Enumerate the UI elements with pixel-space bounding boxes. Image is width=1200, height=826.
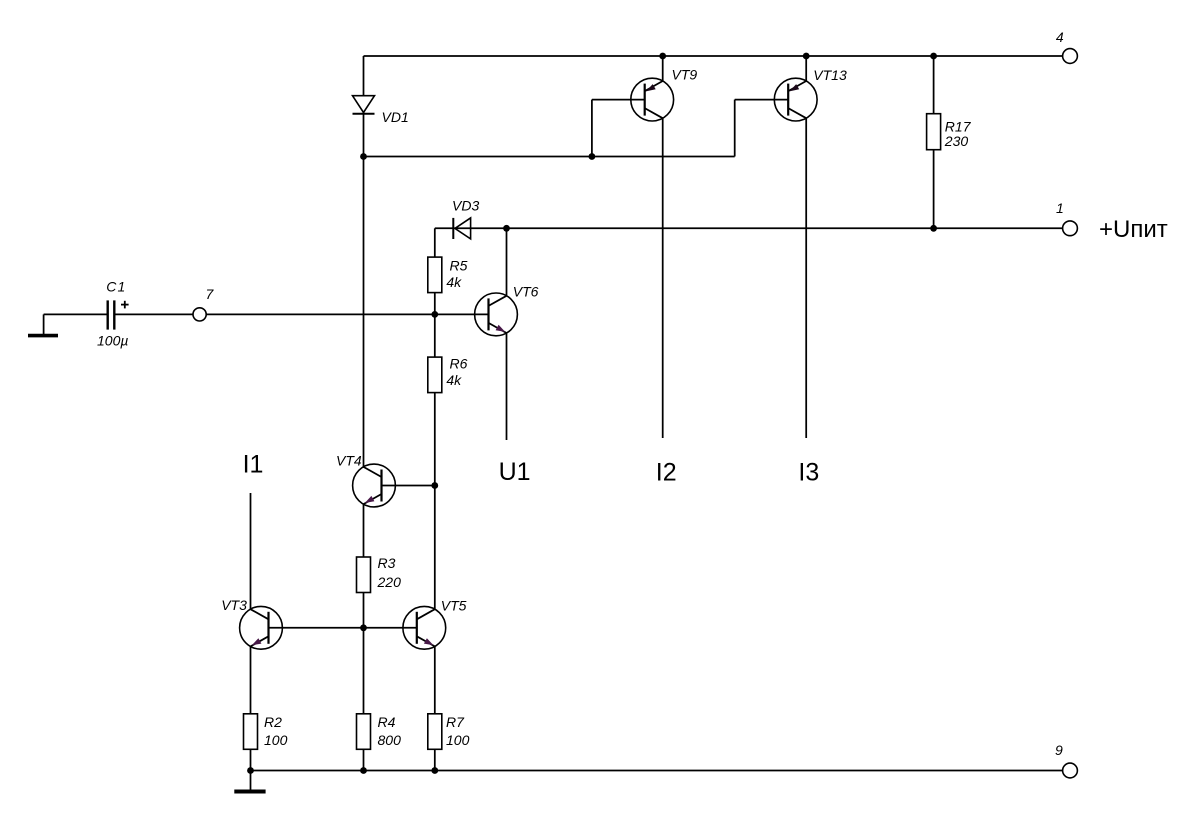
svg-text:VT13: VT13	[813, 67, 847, 83]
transistor VT6 (NPN)	[475, 293, 518, 336]
wire VD1 anode stub	[363, 56, 365, 96]
svg-text:4k: 4k	[446, 372, 462, 388]
terminal 9	[1063, 763, 1078, 778]
label R4	[378, 714, 402, 748]
node junction VD1-cathode rail	[360, 153, 367, 160]
transistor VT9 (PNP)	[631, 78, 674, 121]
wire VT9 base	[592, 99, 645, 101]
label I2	[656, 459, 677, 487]
label U1	[499, 458, 531, 486]
svg-text:I1: I1	[243, 450, 264, 478]
transistor VT3 (NPN mirrored)	[240, 606, 283, 649]
wire net 7	[206, 313, 489, 315]
wire R3 to base rail and R4	[363, 593, 365, 714]
label R5	[446, 258, 467, 291]
wire R2 to rail	[250, 749, 252, 770]
wire VT9 emitter to net4	[662, 56, 664, 82]
svg-text:100µ: 100µ	[97, 333, 128, 349]
label +Upit	[1099, 216, 1168, 243]
label VD1	[382, 109, 409, 125]
label R7	[446, 714, 470, 748]
svg-text:R5: R5	[450, 258, 468, 274]
wire VT13 emitter to net4	[805, 56, 807, 82]
label R3	[377, 555, 402, 590]
label terminal 4	[1056, 29, 1064, 45]
svg-text:VT3: VT3	[221, 597, 247, 613]
diode VD1	[353, 96, 375, 114]
node junction R17 on net 1	[930, 225, 937, 232]
wire ground to C1	[44, 313, 107, 315]
label VT5	[441, 597, 467, 613]
label VT3	[221, 597, 247, 613]
svg-text:C1: C1	[106, 278, 126, 294]
node junction R2 rail	[247, 767, 254, 774]
label VT6	[513, 283, 539, 299]
label I3	[798, 459, 819, 487]
svg-text:100: 100	[264, 732, 288, 748]
wire R17 bottom	[933, 150, 935, 229]
svg-text:VT4: VT4	[336, 453, 362, 469]
svg-text:4: 4	[1056, 29, 1064, 45]
svg-text:R17: R17	[945, 119, 972, 135]
label VT9	[672, 67, 698, 83]
svg-text:R6: R6	[450, 356, 468, 372]
svg-text:220: 220	[377, 574, 402, 590]
diode VD3	[453, 218, 470, 239]
wire VT13 base	[735, 99, 789, 101]
svg-text:100: 100	[446, 732, 470, 748]
wire VT13 collector to I3	[805, 118, 807, 438]
wire VD1 cathode / VT4 collector column	[363, 113, 365, 468]
node junction net7-R5R6	[431, 311, 438, 318]
label VD3	[452, 198, 479, 214]
node junction VT9 base riser	[589, 153, 596, 160]
label R17	[944, 119, 972, 150]
label C1 plus	[121, 301, 129, 309]
resistor R7	[428, 714, 442, 750]
wire VT9 base riser	[591, 100, 593, 157]
svg-text:I3: I3	[798, 459, 819, 487]
svg-text:+Uпит: +Uпит	[1099, 216, 1168, 243]
wire VT6 collector	[506, 228, 508, 296]
node junction R7 rail	[431, 767, 438, 774]
resistor R17	[927, 114, 941, 150]
svg-text:R2: R2	[264, 714, 282, 730]
wire net 9 bottom rail	[251, 770, 1063, 772]
ground symbol left	[28, 314, 58, 335]
svg-text:9: 9	[1055, 742, 1063, 758]
resistor R5	[428, 257, 442, 293]
label VT4	[336, 453, 362, 469]
label I1	[243, 450, 264, 478]
wire R6 to VT4 base node	[434, 393, 436, 486]
wire net 4 top rail	[364, 55, 1063, 57]
node junction R4 rail	[360, 767, 367, 774]
node junction R17 top	[930, 53, 937, 60]
wire I1 stub to VT3 collector	[250, 493, 252, 610]
svg-text:VD1: VD1	[382, 109, 409, 125]
svg-text:U1: U1	[499, 458, 531, 486]
wire R17 top	[933, 56, 935, 114]
label terminal 1	[1056, 200, 1064, 216]
node junction base rail R3R4	[360, 624, 367, 631]
svg-text:7: 7	[206, 286, 215, 302]
resistor R6	[428, 357, 442, 393]
svg-text:R7: R7	[446, 714, 465, 730]
wire VT4 base	[382, 485, 435, 487]
capacitor C1	[108, 300, 115, 329]
wire VT6 emitter to U1	[506, 333, 508, 440]
node junction VT4 base - VT5 collector	[431, 482, 438, 489]
resistor R2	[244, 714, 258, 750]
label terminal 7	[206, 286, 215, 302]
wire C1 to terminal 7	[116, 313, 194, 315]
label VT13	[813, 67, 847, 83]
resistor R4	[357, 714, 371, 750]
label C1	[106, 278, 126, 294]
wire R4 to rail	[363, 749, 365, 770]
wire VD3 riser to R5	[434, 228, 436, 257]
svg-text:800: 800	[378, 732, 402, 748]
svg-text:VT5: VT5	[441, 597, 467, 613]
wire VT5 emitter to R7	[434, 646, 436, 714]
ground symbol bottom	[234, 771, 265, 792]
node junction VT13 on net 4	[803, 53, 810, 60]
wire cathode rail to VT13 base corner	[364, 156, 735, 158]
wire R5 to R6	[434, 293, 436, 357]
svg-text:VD3: VD3	[452, 198, 479, 214]
terminal 4	[1063, 49, 1078, 64]
svg-text:1: 1	[1056, 200, 1064, 216]
terminal 7	[193, 308, 206, 321]
svg-text:230: 230	[944, 133, 969, 149]
label R2	[264, 714, 288, 748]
wire VT9 collector to I2	[662, 118, 664, 438]
wire R7 to rail	[434, 749, 436, 770]
wire VT3 emitter to R2	[250, 646, 252, 714]
svg-text:VT9: VT9	[672, 67, 698, 83]
label R6	[446, 356, 467, 389]
svg-text:R3: R3	[378, 555, 396, 571]
wire VT13 base riser	[734, 100, 736, 157]
wire base rail VT3-VT5	[269, 627, 417, 629]
node junction VT9 on net 4	[659, 53, 666, 60]
transistor VT5 (NPN)	[403, 606, 446, 649]
svg-text:4k: 4k	[446, 274, 462, 290]
label terminal 9	[1055, 742, 1063, 758]
svg-text:R4: R4	[378, 714, 396, 730]
node junction VD3-VT6 collector	[503, 225, 510, 232]
wire net 1 rail	[435, 227, 1063, 229]
terminal 1	[1063, 221, 1078, 236]
svg-text:I2: I2	[656, 459, 677, 487]
svg-text:VT6: VT6	[513, 283, 539, 299]
wire VT4 emitter to R3	[363, 504, 365, 557]
transistor VT4 (NPN mirrored)	[353, 464, 396, 507]
transistor VT13 (PNP)	[774, 78, 817, 121]
resistor R3	[357, 557, 371, 593]
label C1 value	[97, 333, 128, 349]
wire VT5 collector riser	[434, 486, 436, 610]
